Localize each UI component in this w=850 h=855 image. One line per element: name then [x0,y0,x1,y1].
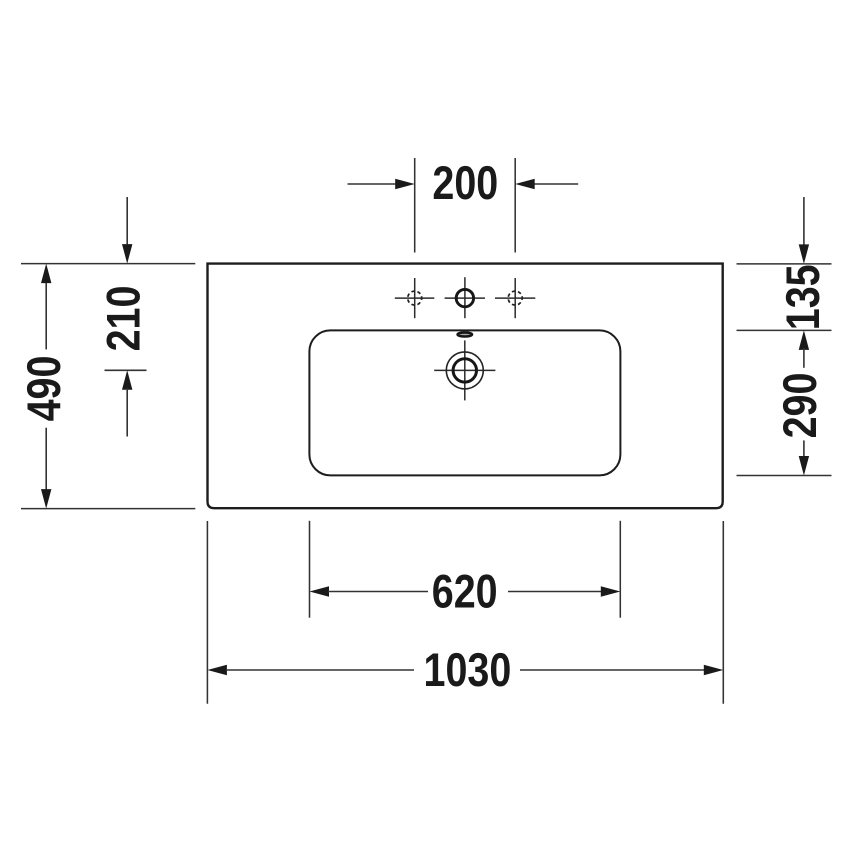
dim 490 line lower segment [45,428,47,491]
dim 200 extension line right [514,158,516,253]
dim 1030 arrowhead left (pointing left) [207,665,227,675]
dim 490 extension line bottom [21,508,195,510]
dim 290 upper arrow tail [803,348,805,368]
faucet hole left (dashed circle) [408,291,422,305]
faucet hole right centerline horizontal [495,297,535,299]
dim 210 upper arrow tail [126,197,128,246]
overflow slot [458,333,473,337]
dim 1030 line right segment [520,669,705,671]
washbasin outer outline [208,264,723,509]
dim 200 arrowhead left (pointing right) [395,179,415,189]
dim 620 line right segment [508,591,602,593]
drain inner circle [453,359,476,382]
drain centerline vertical [464,340,466,400]
dim 620 line left segment [328,591,428,593]
dim 200 extension line left [414,158,416,253]
dim 210 lower arrow tail [126,388,128,437]
dim 620 extension line right [619,521,621,618]
faucet hole center (solid circle) [456,289,473,306]
dim 490 arrowhead bottom (pointing down) [41,489,51,509]
faucet hole right (dashed circle) [508,291,522,305]
faucet hole center centerline horizontal [445,297,485,299]
dim 290 arrowhead bottom (pointing down at basin bottom) [799,456,809,476]
dim 200 leader line right [534,183,578,185]
dim 620 arrowhead right (pointing right) [601,586,621,596]
dim 620 arrowhead left (pointing left) [310,586,330,596]
dim 490 line upper segment [45,281,47,349]
dim 200 leader line left [348,183,397,185]
drain outer circle [446,352,483,389]
dim 290 arrowhead top (pointing up at basin top) [799,330,809,350]
dim 290 lower arrow tail [803,440,805,457]
dim 620 extension line left [309,521,311,618]
svg-text:620: 620 [432,566,498,618]
dim 135 extension line top [737,263,832,265]
dim 135 extension line middle (basin top) [737,329,832,331]
dim 1030 extension line right [722,521,724,704]
svg-text:135: 135 [778,264,830,330]
dim 490 arrowhead top (pointing up) [41,264,51,284]
svg-text:290: 290 [775,373,827,439]
svg-text:1030: 1030 [423,645,511,697]
dim 210 arrowhead bottom (pointing up at drain level) [122,370,132,390]
dim 200 arrowhead right (pointing left) [515,179,535,189]
dim 490 extension line top [21,263,195,265]
dim 1030 arrowhead right (pointing right) [704,665,724,675]
dim 135 arrowhead (pointing down at rim top) [799,244,809,264]
svg-text:200: 200 [432,158,498,210]
svg-text:210: 210 [98,286,150,352]
faucet hole right centerline vertical [514,278,516,318]
basin inner outline [309,330,620,475]
dim 1030 line left segment [226,669,414,671]
faucet hole left centerline vertical [414,278,416,318]
faucet hole left centerline horizontal [395,297,435,299]
dim 210 arrowhead top (pointing down at top edge) [122,244,132,264]
dim 135 upper arrow tail [803,197,805,246]
svg-text:490: 490 [19,356,71,422]
dim 290 extension line bottom (basin bottom) [737,475,832,477]
dim 210 extension tick at drain level [105,369,147,371]
drain centerline horizontal [434,369,495,371]
dim 1030 extension line left [206,521,208,704]
faucet hole center centerline vertical [464,277,466,318]
